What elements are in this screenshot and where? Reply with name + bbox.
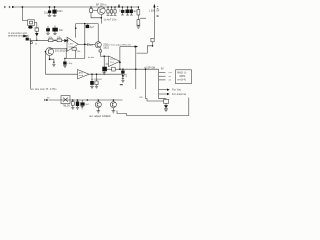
svg-text:For You: For You [172,88,181,92]
svg-text:+9 SP GM: +9 SP GM [144,67,155,70]
svg-text:10µ: 10µ [44,10,49,14]
svg-text:L 50/1 OP: L 50/1 OP [149,10,160,12]
svg-text:+10µ: +10µ [67,63,73,65]
svg-text:For antenna: For antenna [172,92,187,96]
svg-text:10n: 10n [59,28,64,32]
svg-text:ant. level adjust (RV) 10k: ant. level adjust (RV) 10k [107,44,132,47]
svg-text:4µ7: 4µ7 [133,9,138,13]
svg-text:1k: 1k [35,43,37,45]
svg-text:antenna amp (opt): antenna amp (opt) [8,34,29,38]
svg-text:4x 1N4148: 4x 1N4148 [91,79,102,81]
svg-text:4µ7: 4µ7 [90,25,95,29]
svg-text:10n: 10n [119,8,124,12]
svg-text:x-tal: x-tal [35,26,40,29]
svg-text:9V: 9V [161,67,164,71]
svg-text:+9v: +9v [107,114,112,118]
svg-text:1n 4n7 10n: 1n 4n7 10n [103,18,117,22]
svg-text:10k: 10k [48,35,53,39]
svg-text:fm det: fm det [88,56,94,59]
svg-text:ant. wire conn 75 - 0.75m: ant. wire conn 75 - 0.75m [31,88,57,91]
svg-text:ant. adjust GND: ant. adjust GND [89,114,108,118]
svg-text:m+(8-4): m+(8-4) [177,79,186,82]
svg-text:2SC1815: 2SC1815 [55,48,66,52]
svg-text:BF 199 m: BF 199 m [96,3,106,6]
svg-text:LM 7: LM 7 [69,44,75,46]
svg-text:78L05: 78L05 [63,104,71,108]
svg-text:100n: 100n [57,9,63,13]
svg-text:10k: 10k [57,35,62,39]
